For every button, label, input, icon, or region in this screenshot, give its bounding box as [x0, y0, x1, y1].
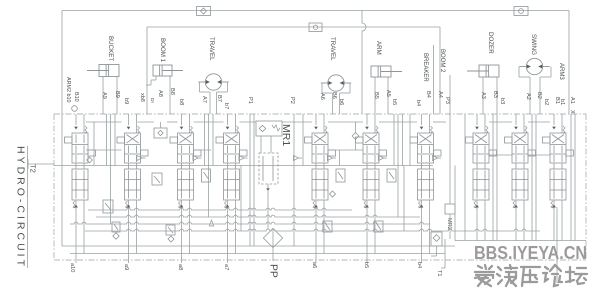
svg-text:PP: PP — [268, 264, 279, 278]
wire pilot line B y27 — [147, 26, 440, 28]
svg-text:TRAVEL: TRAVEL — [329, 37, 336, 61]
svg-text:b4: b4 — [416, 262, 422, 268]
wire drop x557 to bottom edge — [556, 207, 558, 283]
relief valve MR2 — [445, 204, 455, 214]
svg-text:P2: P2 — [289, 97, 295, 104]
valve section TRAVEL left — [216, 133, 247, 200]
svg-text:ARM: ARM — [375, 41, 382, 55]
svg-text:B7: B7 — [216, 95, 222, 102]
wire bottom line y240 right — [455, 240, 586, 242]
valve block chain-line boundary — [54, 113, 586, 115]
svg-text:b5: b5 — [363, 262, 369, 268]
valve section ARM2 b10 — [65, 133, 96, 200]
wire x303 — [302, 114, 304, 166]
wire x404 — [403, 166, 405, 232]
svg-text:A4: A4 — [437, 91, 443, 98]
svg-text:B3: B3 — [492, 91, 498, 98]
svg-text:b3: b3 — [499, 98, 505, 104]
wire BOOM2 port line — [449, 75, 451, 114]
svg-text:A9: A9 — [101, 92, 107, 99]
svg-text:A1: A1 — [569, 97, 575, 104]
svg-text:B8: B8 — [169, 88, 175, 95]
wire mid connectors y150-163 — [54, 165, 433, 167]
wire port line pairs right — [492, 114, 494, 241]
svg-text:MR2: MR2 — [446, 218, 452, 230]
svg-text:A8: A8 — [157, 90, 163, 97]
svg-text:b6: b6 — [338, 99, 344, 105]
wire collector line y224 — [70, 222, 430, 224]
svg-text:B10: B10 — [73, 92, 79, 102]
svg-text:B2: B2 — [536, 92, 542, 99]
pressure reduce block center — [259, 153, 278, 184]
svg-text:B4: B4 — [425, 91, 431, 98]
svg-text:b2: b2 — [543, 99, 549, 105]
svg-text:TRAVEL: TRAVEL — [208, 37, 215, 61]
svg-text:BBS.IYEYA.CN: BBS.IYEYA.CN — [474, 242, 587, 263]
watermark CJK 爱液压论坛 (drawn strokes) — [475, 265, 587, 286]
wire collector line y210 — [88, 208, 352, 210]
wire collector line y231 — [85, 229, 540, 231]
valve section ARM3 — [543, 133, 574, 200]
label T2 port — [28, 163, 54, 165]
check valve assembly left B — [166, 225, 175, 235]
relief valve left1 — [103, 200, 113, 213]
svg-text:T1: T1 — [436, 270, 442, 277]
check valve tiny left — [87, 157, 93, 163]
svg-text:a9: a9 — [123, 264, 129, 270]
cylinder ARM — [371, 66, 402, 77]
wire P1 drop — [249, 114, 251, 246]
motor SWING — [519, 58, 549, 74]
svg-text:P3: P3 — [444, 97, 450, 104]
svg-text:A5: A5 — [385, 90, 391, 97]
svg-text:P1: P1 — [247, 97, 253, 104]
svg-text:b8: b8 — [178, 99, 184, 105]
wire bottom bus y253 — [70, 253, 445, 255]
valve section DOZER — [466, 133, 497, 200]
svg-text:Dr: Dr — [149, 98, 155, 103]
valve section BREAKER — [410, 133, 441, 200]
svg-text:a6: a6 — [311, 262, 317, 268]
valve section BOOM1 — [170, 133, 201, 200]
wire right side drops — [454, 166, 456, 241]
svg-text:B5: B5 — [373, 92, 379, 99]
svg-text:a8: a8 — [177, 264, 183, 270]
relief valve MR1 — [256, 121, 282, 136]
relief valve right — [431, 232, 442, 246]
svg-text:A2: A2 — [525, 93, 531, 100]
cylinder BOOM 1 — [153, 65, 183, 76]
check valve mid — [352, 133, 359, 140]
svg-text:A7: A7 — [201, 96, 207, 103]
valve section ARM — [356, 133, 387, 200]
relief valve left2 — [152, 173, 162, 185]
pilot arrow x211 — [209, 220, 213, 226]
svg-text:A6: A6 — [319, 93, 325, 100]
svg-text:b7: b7 — [223, 103, 229, 109]
svg-text:BUCKET: BUCKET — [107, 36, 114, 61]
svg-text:B6: B6 — [331, 92, 337, 99]
label T1 — [444, 239, 446, 268]
svg-text:a10: a10 — [69, 263, 75, 272]
orifice on pilot line B — [309, 23, 322, 32]
svg-text:a7: a7 — [223, 264, 229, 270]
valve section BUCKET — [117, 133, 148, 200]
wire inter-section pilot passages — [106, 114, 108, 166]
filter symbol on pump line — [263, 228, 282, 247]
svg-text:BOOM 2: BOOM 2 — [439, 49, 445, 73]
svg-text:b1: b1 — [559, 99, 565, 105]
pilot check triangles — [137, 155, 142, 160]
motor TRAVEL right — [321, 75, 351, 91]
svg-text:ARM2 b10: ARM2 b10 — [65, 77, 71, 102]
check valve assembly left A — [112, 222, 120, 232]
svg-text:b9: b9 — [123, 98, 129, 104]
check valve on top line — [197, 7, 211, 16]
wire P2 drop — [293, 114, 295, 246]
pilot valve xb8 — [154, 128, 167, 138]
relief valves section satellites — [202, 169, 211, 182]
svg-text:BREAKER: BREAKER — [422, 53, 428, 82]
svg-text:DOZER: DOZER — [487, 32, 494, 54]
cylinder DOZER — [467, 65, 499, 77]
svg-text:b5: b5 — [391, 99, 397, 105]
wire x410 — [409, 114, 411, 166]
svg-text:X: X — [569, 110, 575, 114]
svg-text:xb8: xb8 — [139, 93, 145, 102]
check valve small mid — [330, 191, 336, 197]
wire left main drain riser x62 — [61, 11, 63, 247]
valve section SWING — [505, 133, 536, 200]
svg-text:A3: A3 — [480, 92, 486, 99]
svg-text:T2: T2 — [29, 164, 38, 173]
orifice on top line right — [514, 7, 528, 16]
svg-text:B9: B9 — [114, 91, 120, 98]
wire collector line y217 — [96, 215, 420, 217]
cylinder BUCKET — [87, 65, 119, 77]
wire bottom bus y246 — [62, 245, 455, 247]
motor TRAVEL left — [198, 74, 228, 90]
svg-text:ARM3: ARM3 — [558, 63, 564, 80]
svg-text:MR1: MR1 — [280, 124, 292, 146]
wire right supply riser x569 — [568, 11, 570, 115]
wire top supply line A — [62, 10, 569, 12]
wire breaker port line — [433, 45, 435, 114]
wire mid connectors y122 — [86, 121, 122, 123]
wire x241 — [240, 166, 242, 232]
valve section TRAVEL right — [305, 133, 336, 200]
wire riser x362 with hop over line B — [362, 11, 366, 115]
svg-text:SWING: SWING — [530, 34, 537, 55]
svg-text:BOOM 1: BOOM 1 — [159, 38, 166, 63]
port circle b10 — [72, 106, 78, 112]
svg-text:b4: b4 — [415, 100, 421, 106]
